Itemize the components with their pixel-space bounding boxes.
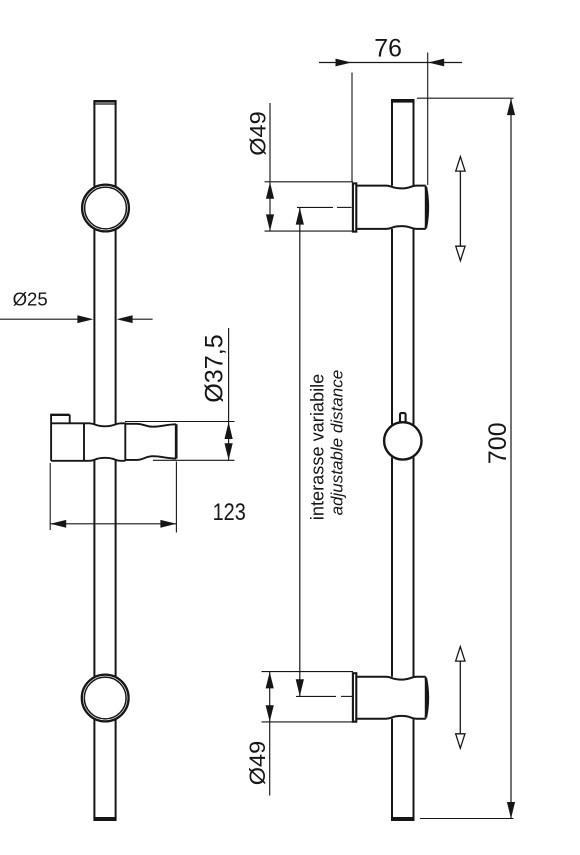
left tube top end cap (93, 101, 116, 104)
slider knob (side view) circle (384, 422, 421, 459)
dimension Ø49 (bottom bracket diameter) (262, 672, 354, 796)
right tube top end cap (391, 99, 415, 103)
svg-text:Ø25: Ø25 (13, 289, 48, 310)
slider holder body (front view) (50, 415, 176, 461)
sliding movement arrow (bottom, open heads) (456, 647, 465, 749)
top bracket centreline (297, 206, 352, 208)
divider left (83, 423, 85, 461)
right grip section with finger grooves (125, 424, 176, 427)
bottom wall bracket body (356, 677, 427, 719)
bottom bracket centreline (296, 695, 352, 697)
dimension 700 (overall length) (417, 98, 515, 818)
left cup section (50, 415, 52, 461)
bottom wall bracket (side view): flange plate (353, 673, 356, 722)
release tab on top (50, 414, 69, 416)
middle clamp section with tube fillet waves (84, 423, 125, 426)
svg-text:adjustable distance: adjustable distance (328, 370, 347, 516)
dimension 123 (holder length) (50, 462, 176, 533)
divider right (124, 423, 126, 462)
dimension Ø37,5 (holder diameter) (125, 328, 235, 460)
top wall-mount flange (front view, double circle) (82, 185, 129, 232)
dimension Ø25 (tube diameter, front view) (0, 315, 153, 323)
dimension Ø49 (top bracket diameter) (265, 103, 354, 231)
svg-text:700: 700 (484, 422, 512, 464)
svg-text:Ø49: Ø49 (245, 741, 270, 786)
svg-text:Ø49: Ø49 (246, 111, 271, 156)
svg-text:interasse variabile: interasse variabile (308, 374, 328, 521)
svg-text:76: 76 (374, 35, 402, 62)
right tube bottom end cap (391, 817, 415, 821)
top wall bracket body (356, 186, 427, 229)
slider knob (side view) nub (400, 413, 406, 424)
sliding movement arrow (top, open heads) (456, 157, 465, 261)
bottom wall-mount flange (front view, double circle) (82, 675, 129, 722)
right rail tube (side view) (392, 102, 414, 818)
left tube bottom end cap (93, 817, 116, 821)
dimension 76 (bracket depth) (319, 53, 462, 186)
left rail tube (front view) (94, 102, 115, 818)
svg-text:Ø37,5: Ø37,5 (202, 334, 229, 403)
top wall bracket (side view): flange plate (353, 183, 356, 231)
svg-text:123: 123 (213, 499, 246, 526)
adjustable distance dimension line between bracket centres (296, 207, 304, 696)
